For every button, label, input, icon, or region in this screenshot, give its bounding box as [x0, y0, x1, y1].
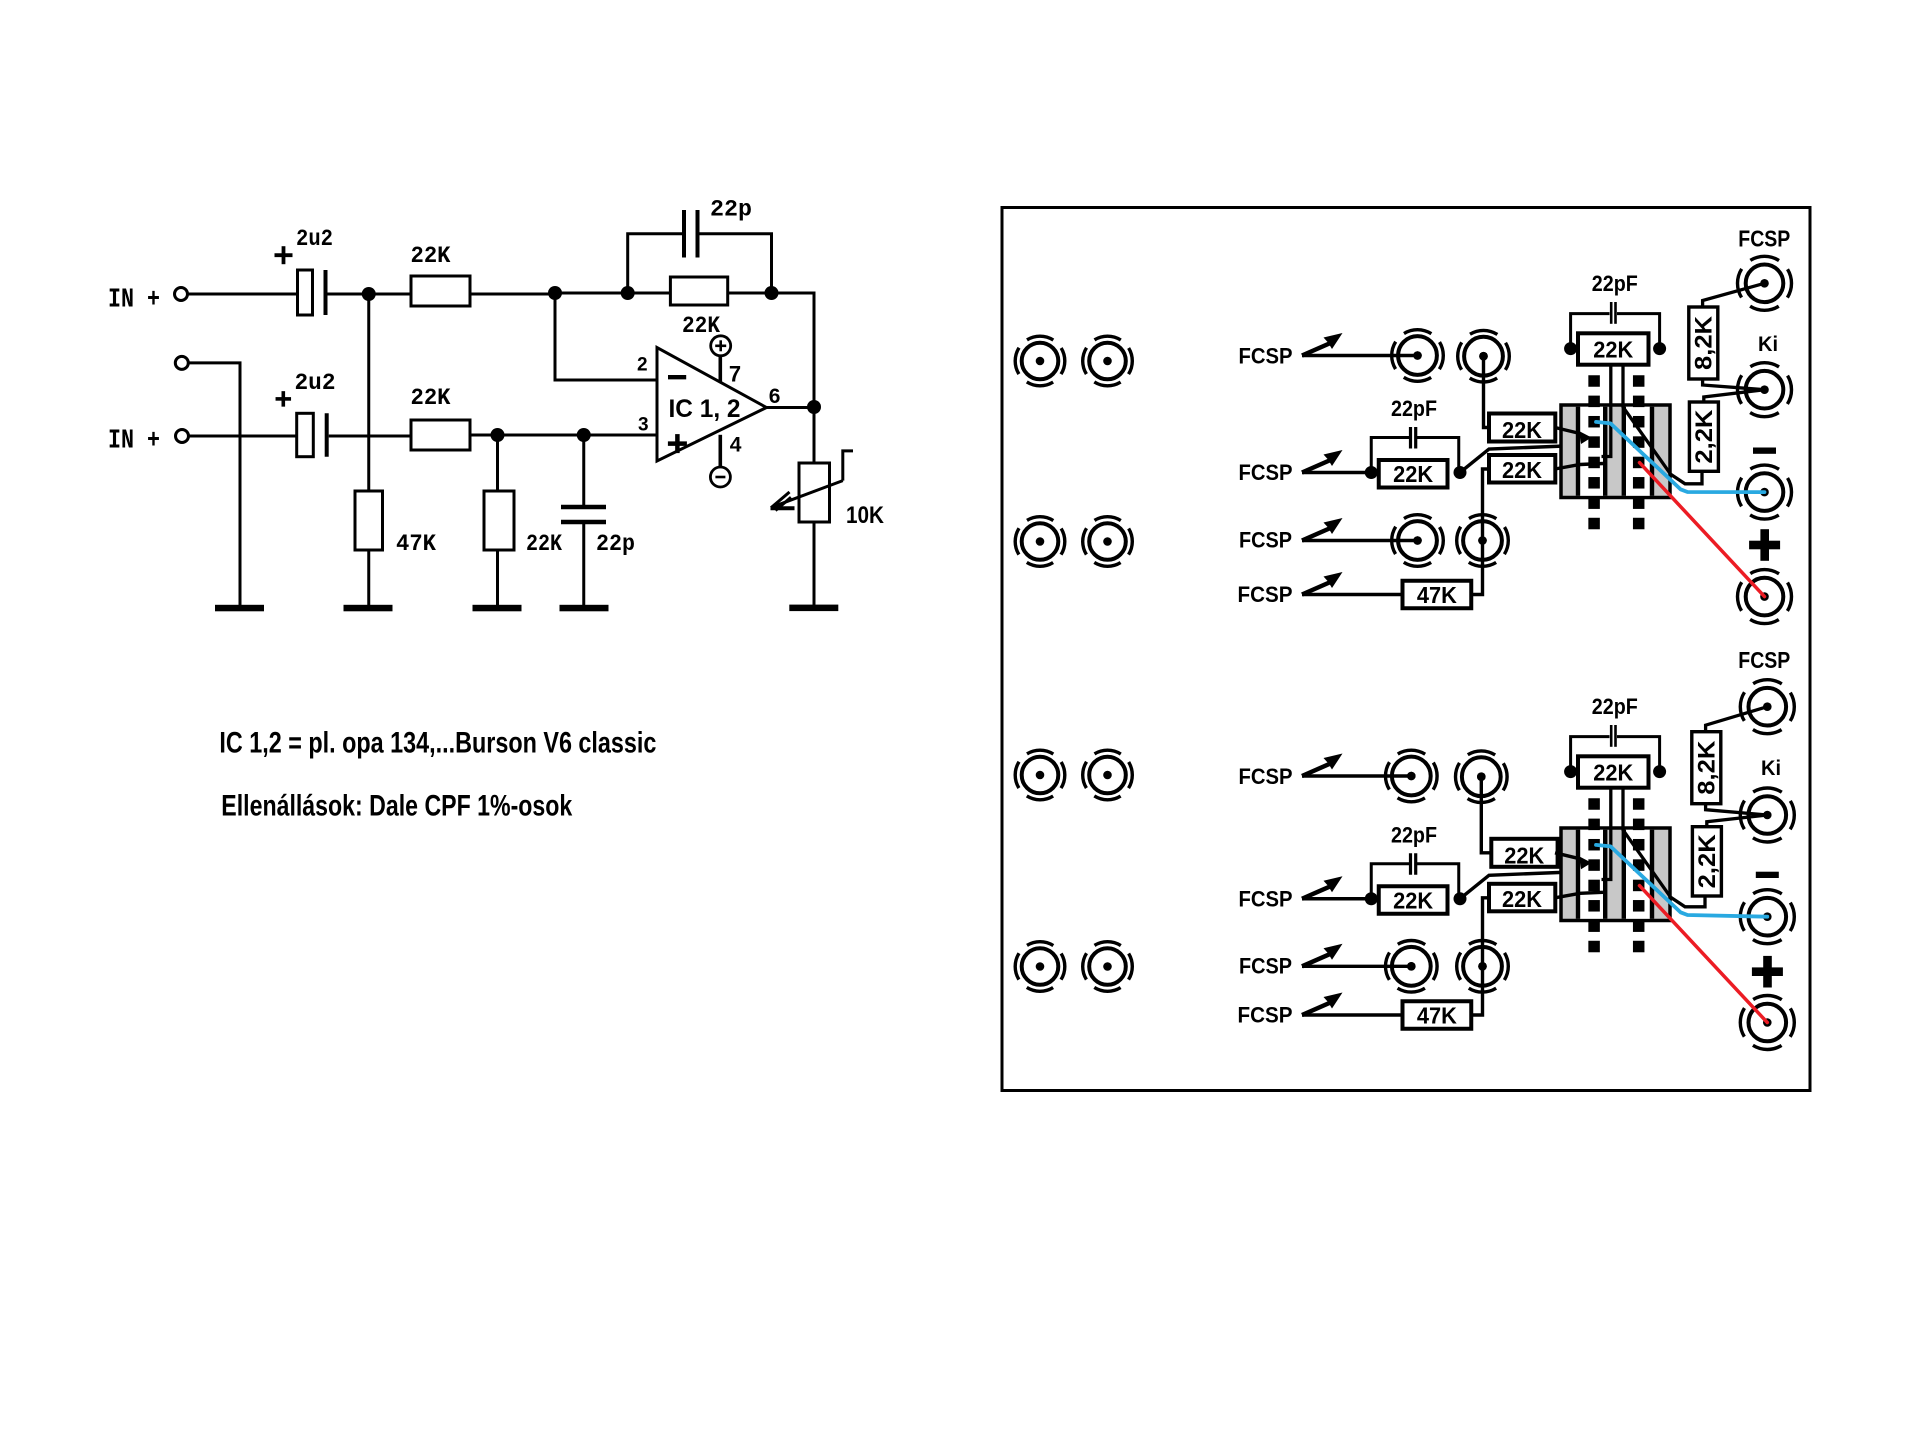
node D junction dot: [765, 286, 779, 300]
ch2 resistor 22K (feedback): [1578, 756, 1649, 787]
svg-text:FCSP: FCSP: [1239, 764, 1293, 789]
svg-text:22K: 22K: [1593, 336, 1633, 362]
svg-text:22pF: 22pF: [1391, 396, 1437, 421]
svg-text:7: 7: [729, 362, 741, 387]
ch2 wire FCSP row 1 to pad: [1302, 774, 1411, 777]
wire R5 to ground: [496, 550, 499, 605]
ch1 resistor 47K: [1403, 581, 1472, 609]
svg-text:22K: 22K: [1502, 886, 1542, 912]
svg-text:4: 4: [730, 434, 742, 457]
ch1 pad FCSP top right: [1738, 256, 1792, 310]
ch2 solder pad group left (pad 2): [1083, 750, 1133, 800]
svg-text:FCSP: FCSP: [1238, 1003, 1293, 1028]
svg-text:FCSP: FCSP: [1239, 460, 1293, 485]
ch1 wire 8,2K top lead to FCSP pad: [1703, 283, 1765, 307]
resistor R2 22K (feedback): [670, 277, 727, 305]
ch2 pad row 3 left: [1386, 941, 1438, 993]
ch1 junction dot feedback right: [1653, 342, 1666, 355]
ch1 wire 22K row3 into socket: [1555, 464, 1603, 470]
svg-text:22p: 22p: [710, 197, 752, 223]
input terminal top of second input (open circle): [175, 356, 188, 369]
resistor R3 22K (series, bottom): [411, 420, 470, 450]
node E junction dot: [491, 428, 505, 442]
ch1 wire FCSP row 1 to pad: [1302, 354, 1418, 357]
resistor R5 22K (shunt): [484, 491, 514, 550]
wire node B down to op-amp pin 2: [555, 293, 657, 380]
svg-text:22pF: 22pF: [1592, 694, 1638, 719]
ch1 red wire pin to plus pad: [1640, 463, 1765, 597]
ch1 solder pad group left (pad 4): [1083, 517, 1133, 567]
ch2 pad FCSP top right: [1740, 680, 1794, 734]
node B junction dot (inverting input branch): [548, 286, 562, 300]
ch2 wire 22K upper-right into socket with arrow: [1555, 853, 1580, 859]
wire op-amp output to node G: [767, 406, 815, 409]
ch2 wire 2,2K top lead to Ki pad: [1707, 815, 1768, 827]
wire node C to R2: [628, 292, 671, 295]
svg-text:22K: 22K: [526, 531, 562, 557]
wire node A to R1: [369, 293, 411, 296]
ch1 pad row 3 left: [1392, 515, 1444, 567]
ch2 resistor 2,2K: [1692, 827, 1721, 896]
ch2 FCSP arrow row 1: [1302, 764, 1331, 777]
input terminal IN+ bottom (open circle): [176, 430, 189, 443]
svg-text:IC 1, 2: IC 1, 2: [669, 395, 741, 423]
ground (R5): [473, 605, 522, 612]
ch2 pad Ki: [1740, 788, 1794, 842]
ch2 wire FCSP row 3 to pad: [1302, 965, 1411, 968]
svg-text:8,2K: 8,2K: [1690, 315, 1717, 370]
wire node E down to R5: [496, 435, 499, 491]
ch2 capacitor 22pF plates (feedback): [1610, 725, 1613, 747]
ch1 resistor 8,2K: [1689, 307, 1718, 379]
PCB layout panel border: [1002, 208, 1810, 1091]
svg-text:6: 6: [769, 385, 781, 408]
node F junction dot: [577, 428, 591, 442]
ch2 IC socket pin channel right: [1626, 830, 1650, 919]
capacitor C2 2u2 (electrolytic, series): [297, 413, 314, 456]
ground (second input): [215, 605, 264, 612]
wire C1 to node A: [328, 293, 370, 296]
ch2 wire FCSP row 4 to 47K: [1302, 1013, 1403, 1016]
node G junction dot (output): [807, 400, 821, 414]
ch2 wire mid junction diagonal to IC socket: [1460, 871, 1603, 899]
svg-text:22K: 22K: [1593, 759, 1633, 785]
svg-text:FCSP: FCSP: [1239, 953, 1292, 978]
ch2 minus symbol: [1756, 872, 1779, 878]
ch1 IC socket pin holes left column: [1588, 375, 1600, 387]
ch2 wire 8,2K top lead to FCSP pad: [1706, 707, 1768, 732]
ch1 pad row 1 left: [1392, 330, 1444, 382]
ch1 resistor 22K (feedback): [1578, 333, 1649, 364]
svg-text:2u2: 2u2: [295, 370, 336, 396]
wire R4 to ground: [367, 550, 370, 605]
capacitor C1 2u2 (electrolytic, series): [298, 270, 313, 315]
op-amp U1 triangle IC 1,2: [657, 348, 767, 462]
svg-text:FCSP: FCSP: [1239, 344, 1293, 369]
ch1 wire 22K upper-right into socket with arrow: [1555, 428, 1580, 434]
ch2 capacitor 22pF plates (mid): [1409, 853, 1412, 875]
ch2 pad minus: [1740, 890, 1794, 944]
svg-text:Ki: Ki: [1761, 757, 1781, 780]
ch1 resistor 22K (upper right): [1489, 414, 1555, 442]
ch2 blue wire pin1 to minus pad: [1596, 845, 1767, 917]
wire R1 to node B: [470, 293, 555, 296]
ch2 junction dot feedback left: [1564, 765, 1577, 778]
ch1 wire FCSP row 2 to 22K mid: [1302, 471, 1371, 474]
resistor R4 47K (shunt): [355, 491, 383, 550]
svg-text:FCSP: FCSP: [1238, 582, 1293, 607]
ch1 capacitor 22pF plates (mid): [1409, 427, 1412, 449]
ch2 wire feedback left lead into socket: [1602, 787, 1611, 879]
pin 7 wire and positive supply terminal: [718, 356, 722, 382]
svg-text:22p: 22p: [596, 531, 635, 557]
ch1 capacitor 22pF bracket (feedback): [1571, 314, 1610, 349]
svg-text:22K: 22K: [1504, 842, 1544, 868]
svg-text:22K: 22K: [1502, 457, 1542, 483]
wire node F to op-amp pin 3: [584, 434, 657, 437]
ch1 IC socket body: [1561, 405, 1670, 498]
ch2 plus symbol: [1752, 967, 1783, 976]
ch1 solder pad group left (pad 3): [1015, 517, 1065, 567]
ch2 FCSP arrow row 4: [1302, 1003, 1331, 1016]
ch2 IC socket pin holes left column: [1588, 798, 1600, 810]
potentiometer RV1 wiper arrow: [843, 451, 853, 481]
ch1 pad row 3 right: [1457, 515, 1509, 567]
svg-text:FCSP: FCSP: [1239, 886, 1293, 911]
svg-text:3: 3: [638, 415, 649, 436]
wire potentiometer to ground: [813, 522, 816, 605]
wire IN+ top to C1: [188, 293, 299, 296]
svg-text:Ki: Ki: [1758, 333, 1778, 356]
capacitor C4 22p plates (shunt): [561, 505, 606, 510]
ch2 FCSP arrow row 3: [1302, 954, 1331, 967]
ch2 IC socket body: [1561, 828, 1670, 921]
svg-text:FCSP: FCSP: [1738, 647, 1790, 673]
svg-text:22K: 22K: [682, 313, 720, 339]
ch1 IC socket pin holes right column: [1633, 375, 1645, 387]
ch1 FCSP arrow row 1: [1302, 343, 1331, 356]
ground (RV1): [789, 605, 838, 612]
ch2 solder pad group left (pad 1): [1015, 750, 1065, 800]
svg-text:IN +: IN +: [108, 427, 160, 457]
ch1 wire feedback right lead into socket to 2,2K: [1623, 364, 1702, 484]
ch1 wire feedback left lead into socket: [1602, 364, 1611, 456]
svg-text:22K: 22K: [1393, 887, 1433, 913]
ch1 solder pad group left (pad 2): [1083, 336, 1133, 386]
ch1 resistor 22K (mid): [1379, 460, 1448, 488]
ch2 resistor 22K (row 3 right): [1489, 884, 1555, 912]
wire node G down to potentiometer: [813, 407, 816, 463]
svg-text:FCSP: FCSP: [1239, 528, 1292, 553]
node C junction dot (feedback cap tap): [621, 286, 635, 300]
ch1 pad row 1 right: [1458, 330, 1510, 382]
wire C4 to ground: [582, 522, 585, 605]
label + polarity C1: [275, 253, 293, 257]
ch2 pad row 3 right: [1457, 941, 1509, 993]
svg-text:22K: 22K: [411, 243, 451, 269]
ch1 capacitor 22pF plates (feedback): [1610, 302, 1613, 324]
op-amp non-inverting input marker +: [668, 441, 687, 446]
wire R2 to output elbow: [728, 293, 814, 407]
wire node B to feedback node C: [555, 292, 628, 295]
potentiometer RV1 10K body: [799, 463, 830, 522]
pin 4 wire and negative supply terminal: [718, 435, 722, 467]
ch1 pad minus: [1738, 465, 1792, 519]
ch2 junction dot right of 22K mid: [1454, 892, 1467, 905]
ch2 solder pad group left (pad 4): [1083, 942, 1133, 992]
wire C2 to R3: [329, 435, 411, 438]
ch2 wire 47K right lead up to pad row 3: [1471, 966, 1482, 1015]
ch1 wire FCSP row 3 to pad: [1302, 539, 1418, 542]
ch2 solder pad group left (pad 3): [1015, 942, 1065, 992]
feedback capacitor 22p top branch wire: [628, 234, 683, 293]
svg-text:47K: 47K: [1417, 582, 1457, 608]
ch1 solder pad group left (pad 1): [1015, 336, 1065, 386]
wire node E to node F: [498, 434, 584, 437]
ch1 IC socket pin channel right: [1626, 407, 1650, 496]
input terminal IN+ top (open circle): [175, 288, 188, 301]
label + polarity C2: [276, 397, 292, 401]
svg-text:22K: 22K: [1393, 461, 1433, 487]
svg-text:22pF: 22pF: [1391, 822, 1437, 847]
ground (R4): [344, 605, 393, 612]
ch2 wire pad row1 right down to 22K resistor: [1481, 777, 1491, 853]
svg-text:Ellenállások: Dale CPF 1%-osok: Ellenállások: Dale CPF 1%-osok: [221, 790, 572, 823]
node A junction dot: [362, 287, 376, 301]
ch1 wire mid junction diagonal to IC socket: [1460, 445, 1603, 473]
ch2 wire 22K row3 into socket: [1555, 892, 1603, 898]
ch2 FCSP arrow row 2: [1302, 886, 1331, 899]
ch2 red wire pin to plus pad: [1640, 886, 1768, 1023]
ch1 capacitor 22pF bracket (mid): [1371, 438, 1409, 473]
svg-text:2,2K: 2,2K: [1694, 834, 1721, 889]
wire R3 to node E: [470, 434, 498, 437]
ch2 IC socket contact rails: [1576, 830, 1580, 919]
wire IN+ bottom to C2: [189, 435, 298, 438]
svg-text:10K: 10K: [846, 502, 885, 529]
ch2 IC socket pin channel left: [1580, 830, 1603, 919]
ch1 junction dot right of 22K mid: [1454, 466, 1467, 479]
wire C3 to node D: [700, 234, 772, 293]
ch1 wire pad row1 right down to 22K resistor: [1484, 356, 1490, 427]
capacitor C3 22p plates (feedback): [682, 210, 686, 258]
ch1 blue wire pin1 to minus pad: [1596, 422, 1765, 492]
ch1 wire 47K right lead up to pad row 3: [1471, 541, 1482, 595]
svg-text:8,2K: 8,2K: [1693, 740, 1720, 795]
ch2 wire feedback right lead into socket to 2,2K: [1623, 787, 1705, 907]
ch2 resistor 22K (upper right): [1491, 839, 1557, 867]
ch1 wire FCSP row 4 to 47K: [1302, 593, 1403, 596]
ch1 FCSP arrow row 3: [1302, 528, 1331, 541]
ch2 resistor 22K (mid): [1379, 886, 1448, 914]
ch2 pad row 1 right: [1456, 751, 1508, 803]
ch2 IC socket pin holes right column: [1633, 798, 1645, 810]
ch1 pad plus: [1738, 570, 1792, 624]
svg-text:22K: 22K: [411, 385, 451, 411]
svg-text:2,2K: 2,2K: [1691, 409, 1718, 464]
op-amp inverting input marker -: [668, 375, 686, 379]
ch1 IC socket pin channel left: [1580, 407, 1603, 496]
wire second terminal to ground rail: [188, 363, 240, 605]
ch1 FCSP arrow row 2: [1302, 460, 1331, 473]
svg-text:22pF: 22pF: [1592, 271, 1638, 296]
ch2 wire 22K row3 left lead down to pad: [1483, 898, 1490, 967]
ch1 wire 22K row3 left lead down to pad: [1483, 469, 1490, 541]
ch1 resistor 22K (row 3 right): [1489, 455, 1555, 483]
wire node A down to R4: [367, 294, 370, 491]
ch2 resistor 47K: [1403, 1001, 1472, 1029]
ch1 wire 8,2K bottom lead to Ki pad: [1703, 379, 1765, 390]
ch1 junction dot feedback left: [1564, 342, 1577, 355]
wire node F down to C4: [582, 435, 585, 507]
ch2 pad plus: [1740, 996, 1794, 1050]
svg-text:22K: 22K: [1502, 417, 1542, 443]
ch1 FCSP arrow row 4: [1302, 582, 1331, 595]
ground (C4): [560, 605, 609, 612]
ch2 capacitor 22pF bracket (feedback): [1571, 737, 1610, 772]
ch1 plus symbol: [1749, 541, 1780, 550]
ch2 capacitor 22pF bracket (mid): [1371, 864, 1409, 899]
svg-text:2u2: 2u2: [296, 226, 333, 252]
ch2 junction dot feedback right: [1653, 765, 1666, 778]
svg-text:2: 2: [637, 354, 648, 375]
ch1 pad Ki: [1738, 363, 1792, 417]
svg-text:IN +: IN +: [108, 286, 160, 316]
svg-text:47K: 47K: [396, 531, 436, 557]
resistor R1 22K (series, top): [411, 276, 470, 306]
ch1 wire 2,2K top lead to Ki pad: [1704, 390, 1765, 402]
ch2 resistor 8,2K: [1692, 732, 1721, 804]
ch1 resistor 2,2K: [1689, 402, 1718, 471]
ch2 wire 8,2K bottom lead to Ki pad: [1706, 804, 1768, 815]
svg-text:IC 1,2 = pl. opa 134,...Burson: IC 1,2 = pl. opa 134,...Burson V6 classi…: [219, 727, 656, 760]
ch1 IC socket contact rails: [1576, 407, 1580, 496]
svg-text:47K: 47K: [1417, 1003, 1457, 1029]
svg-text:FCSP: FCSP: [1738, 226, 1790, 252]
ch1 minus symbol: [1753, 448, 1776, 454]
ch2 pad row 1 left: [1386, 750, 1438, 802]
ch2 junction dot left of 22K mid: [1365, 892, 1378, 905]
ch2 wire FCSP row 2 to 22K mid: [1302, 897, 1371, 900]
ch1 junction dot left of 22K mid: [1365, 466, 1378, 479]
